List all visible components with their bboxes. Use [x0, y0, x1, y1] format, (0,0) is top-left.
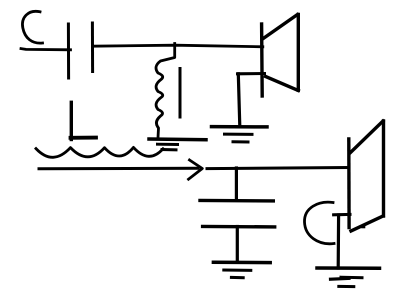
speaker SP2 (bottom) driver line [347, 139, 351, 228]
capacitor C1 left plate [67, 24, 70, 78]
capacitor C2 bottom plate [203, 225, 275, 229]
wire (capacitor C1 to top speaker, with junction at coil) [93, 45, 263, 47]
wire (top speaker lower terminal) [238, 72, 265, 75]
wire (arrowed line to bottom speaker) [207, 168, 349, 169]
speaker SP2 horn bottom diagonal [351, 216, 383, 231]
inductor L2 (horizontal wavy line) [36, 147, 163, 157]
label C (top left) [22, 11, 42, 43]
arrow head [189, 160, 203, 179]
capacitor C1 right plate [91, 23, 94, 72]
speaker SP2 horn top diagonal [350, 121, 383, 153]
ground (below capacitor C2) [213, 261, 270, 265]
capacitor C2 bottom lead [236, 227, 239, 263]
label C (bottom) [304, 202, 334, 244]
inductor L1 (vertical coil) [156, 44, 175, 138]
wire (bottom speaker lower terminal) [334, 213, 350, 216]
line beside inductor [179, 69, 182, 118]
wire (down to ground from top speaker) [238, 74, 240, 127]
speaker SP1 horn bottom diagonal [266, 77, 299, 91]
wire (left section of arrowed line) [39, 167, 198, 171]
speaker SP1 horn top diagonal [263, 15, 298, 40]
speaker SP1 (top) driver line [260, 24, 264, 96]
wire (down to ground from bottom speaker) [337, 215, 341, 268]
label L [70, 102, 73, 139]
wire (left lead into capacitor C1) [21, 49, 71, 50]
speaker SP2 horn right edge [382, 121, 385, 216]
capacitor C2 top plate [200, 199, 273, 203]
speaker SP1 horn right edge [297, 15, 300, 91]
ground (bottom speaker) [317, 266, 380, 270]
capacitor C2 top lead [235, 168, 238, 198]
ground (below coil) [149, 137, 206, 141]
node (stray dot) [363, 226, 365, 229]
ground (top speaker) [212, 125, 268, 129]
